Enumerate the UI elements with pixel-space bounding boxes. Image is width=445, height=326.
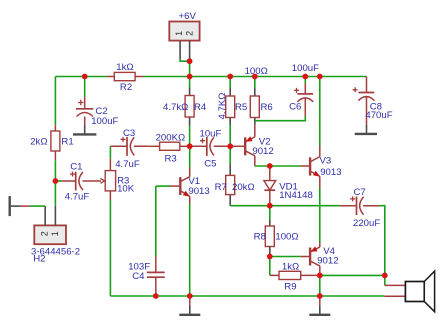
svg-text:V3: V3: [320, 156, 332, 167]
capacitor C8: [353, 77, 375, 125]
svg-text:100Ω: 100Ω: [275, 232, 298, 243]
ground below C8: [355, 125, 377, 134]
node V3 collector on rail: [317, 74, 323, 80]
svg-text:R6: R6: [261, 102, 273, 113]
svg-text:R5: R5: [235, 102, 247, 113]
ground below V4: [309, 296, 330, 315]
node R5 top: [227, 74, 233, 80]
transistor V2: [230, 125, 255, 167]
svg-text:200KΩ: 200KΩ: [156, 133, 186, 144]
svg-text:9012: 9012: [252, 146, 273, 157]
node C1 input: [53, 178, 59, 184]
svg-text:R9: R9: [284, 281, 296, 292]
svg-text:4.7uF: 4.7uF: [115, 159, 140, 170]
resistor R1: [51, 125, 60, 160]
svg-text:+6V: +6V: [179, 11, 197, 22]
node ground rail at V4: [317, 293, 323, 299]
capacitor C4: [147, 186, 165, 296]
svg-text:10uF: 10uF: [200, 129, 222, 140]
wire V2 collector to VD1/V3 base: [255, 165, 301, 167]
speaker LS1: [405, 271, 434, 312]
svg-text:9012: 9012: [317, 256, 338, 267]
capacitor C3: [110, 137, 148, 156]
input ground (rotated): [10, 196, 30, 216]
svg-text:H2: H2: [33, 253, 45, 264]
svg-text:1kΩ: 1kΩ: [116, 62, 133, 73]
svg-text:C1: C1: [70, 162, 82, 173]
diode VD1: [264, 166, 276, 206]
svg-text:470uF: 470uF: [365, 110, 392, 121]
resistor R9: [270, 271, 320, 279]
resistor R5: [226, 77, 235, 126]
wire connector pins junction: [180, 60, 190, 62]
svg-text:220uF: 220uF: [353, 218, 380, 229]
svg-text:100Ω: 100Ω: [245, 66, 268, 77]
wire R4 bottom to mid wire: [189, 126, 191, 147]
wire mid signal wire C3 to V2: [148, 145, 159, 147]
svg-text:R7: R7: [215, 182, 227, 193]
wire V1 collector to mid wire: [189, 146, 191, 167]
input connector H2: [34, 206, 66, 244]
wire R7/VD1 to C7: [230, 205, 339, 207]
wire H2 pin2 to input ground: [30, 205, 46, 207]
node +6V on rail: [187, 74, 193, 80]
transistor V4: [301, 243, 320, 276]
svg-text:2: 2: [185, 31, 195, 36]
speaker top terminal: [385, 284, 406, 286]
wire speaker top feed: [384, 275, 386, 285]
wire bottom ground rail: [110, 295, 384, 297]
node mid wire R5 bottom: [227, 143, 233, 149]
node mid wire V1 collector: [187, 143, 193, 149]
node speaker top: [382, 273, 388, 279]
wire V4 node down to ground rail: [319, 275, 321, 296]
wire R5 bottom to mid wire: [229, 125, 231, 146]
wire pot bottom to ground rail: [109, 200, 111, 296]
svg-text:1: 1: [50, 231, 60, 236]
node R8 bottom / V4 base: [267, 254, 273, 260]
node C2 top: [82, 74, 88, 80]
resistor R4: [185, 77, 194, 126]
svg-text:9013: 9013: [320, 167, 341, 178]
wire top rail left segment: [55, 76, 106, 78]
ground below V1 emitter: [179, 296, 200, 315]
capacitor C2: [76, 77, 93, 126]
capacitor C6: [294, 77, 313, 117]
node R6 top: [252, 74, 258, 80]
svg-text:2: 2: [39, 231, 49, 236]
svg-text:C7: C7: [354, 187, 366, 198]
svg-text:10K: 10K: [117, 184, 135, 195]
node ground rail at V1: [187, 293, 193, 299]
resistor R6: [250, 77, 259, 125]
capacitor C1: [55, 172, 101, 191]
wire V1 emitter to ground rail: [189, 204, 191, 297]
resistor R2: [106, 72, 143, 80]
resistor R8: [265, 206, 274, 257]
svg-text:20kΩ: 20kΩ: [232, 182, 255, 193]
svg-text:1kΩ: 1kΩ: [282, 261, 299, 272]
wire V4 collector/R9 node to speaker node: [320, 274, 385, 276]
wire R1 bottom to H2 pin: [54, 160, 56, 206]
node VD1 cathode: [267, 203, 273, 209]
node VD1 anode: [267, 163, 273, 169]
resistor R3 200K: [160, 142, 190, 150]
wire +6V feed to top rail: [189, 61, 191, 76]
svg-text:9013: 9013: [188, 186, 209, 197]
capacitor C7: [340, 196, 380, 215]
svg-text:2kΩ: 2kΩ: [30, 137, 47, 148]
svg-text:R4: R4: [194, 102, 207, 113]
wire top rail right segment: [143, 76, 366, 78]
node V4 collector / R9: [317, 273, 323, 279]
svg-text:100uF: 100uF: [292, 63, 319, 74]
svg-text:4.7kΩ: 4.7kΩ: [163, 102, 188, 113]
wire C4/V1 base: [156, 185, 170, 187]
wire mid wire down to R7: [229, 146, 231, 164]
resistor R7: [226, 164, 235, 206]
svg-text:4.7KΩ: 4.7KΩ: [217, 93, 228, 120]
svg-text:C4: C4: [132, 271, 145, 282]
node +6V pins junction: [187, 58, 193, 64]
wire C7 output down to speaker node: [380, 206, 385, 276]
svg-text:100uF: 100uF: [91, 116, 118, 127]
svg-text:1: 1: [174, 31, 184, 36]
wire R8/V4 base: [270, 256, 301, 258]
potentiometer R3 10K wiper arrow: [100, 179, 104, 184]
transistor V3: [300, 146, 320, 188]
wire V3 emitter to V4 emitter: [319, 188, 321, 243]
speaker bottom terminal: [384, 295, 405, 297]
svg-text:R8: R8: [254, 232, 266, 243]
svg-text:C3: C3: [123, 128, 135, 139]
node C6 top: [302, 74, 308, 80]
svg-text:R2: R2: [120, 82, 132, 93]
wire R8 bottom to R9 corner: [269, 257, 271, 276]
svg-text:1N4148: 1N4148: [279, 190, 313, 201]
svg-text:4.7uF: 4.7uF: [65, 192, 90, 203]
wire left vertical from top rail to R1: [54, 77, 56, 126]
node junction dots: [53, 58, 388, 299]
svg-text:C5: C5: [204, 159, 216, 170]
potentiometer R3 10K: [105, 146, 115, 200]
wire R6/V2 emitter to C6: [255, 116, 305, 121]
ground below C2: [73, 125, 96, 134]
wire V3 collector to top rail: [319, 77, 321, 146]
power connector +6V: [169, 22, 199, 60]
svg-text:C6: C6: [289, 102, 301, 113]
capacitor C5: [190, 137, 231, 156]
svg-text:R1: R1: [61, 136, 73, 147]
transistor V1: [170, 168, 190, 204]
node ground rail at C4: [153, 293, 159, 299]
svg-text:R3: R3: [165, 154, 177, 165]
